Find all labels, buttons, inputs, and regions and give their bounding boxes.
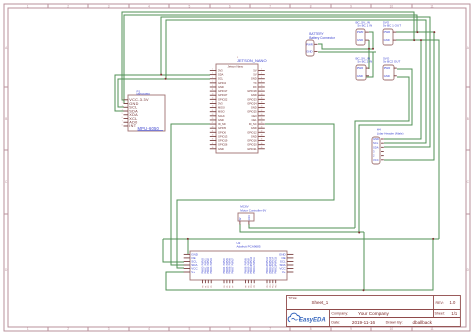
svg-text:38: 38 — [261, 143, 263, 145]
pin 6 XCL — [124, 118, 129, 120]
svg-text:GND: GND — [384, 38, 390, 42]
svg-text:P10: P10 — [251, 285, 253, 288]
svg-text:Lidar Header (Male): Lidar Header (Male) — [377, 131, 404, 135]
svg-text:GPIO22: GPIO22 — [218, 97, 228, 101]
svg-text:V+: V+ — [282, 270, 286, 274]
pin GND — [365, 39, 369, 41]
pin PWR — [393, 31, 397, 33]
pin OE left — [184, 257, 190, 259]
svg-text:5: 5 — [189, 5, 191, 9]
pin 12 GPIO18 — [258, 90, 265, 92]
pin PWR — [365, 31, 369, 33]
svg-text:P0: P0 — [202, 286, 204, 288]
wire drop to PCA GND — [187, 239, 189, 254]
svg-text:Motor Controller 6V: Motor Controller 6V — [240, 209, 266, 213]
pin 5V — [239, 221, 241, 224]
svg-text:GPIO21: GPIO21 — [247, 147, 257, 151]
wire PCA SCL drop from return line — [163, 239, 184, 262]
IC P1 MPU6050 — [128, 95, 165, 131]
pin GND — [248, 221, 250, 224]
svg-text:SDA: SDA — [218, 73, 224, 77]
svg-text:GPIO19: GPIO19 — [218, 139, 228, 143]
svg-text:P12: P12 — [267, 285, 269, 288]
svg-text:GPIO6: GPIO6 — [218, 130, 226, 134]
pin 1 3V3 — [210, 70, 217, 72]
svg-text:31: 31 — [212, 130, 214, 132]
svg-text:ID_SD: ID_SD — [218, 122, 226, 126]
svg-text:GND: GND — [251, 77, 257, 81]
pin 27 ID_SD — [210, 123, 217, 125]
svg-text:1/1: 1/1 — [451, 311, 457, 316]
svg-text:9: 9 — [350, 327, 352, 331]
svg-text:P6: P6 — [230, 286, 232, 288]
svg-text:GPIO27: GPIO27 — [218, 93, 228, 97]
pin 24 CE0 — [258, 115, 265, 117]
svg-text:13: 13 — [212, 93, 214, 95]
IC U2 Adafruit PCA9685 — [190, 251, 287, 280]
svg-text:10: 10 — [261, 85, 263, 87]
junction — [433, 31, 435, 33]
svg-text:Drawn By:: Drawn By: — [386, 321, 403, 325]
svg-text:INT: INT — [129, 124, 136, 128]
pin 8 INT — [124, 125, 129, 127]
junction — [420, 39, 422, 41]
pin 21 MISO — [210, 111, 217, 113]
connector BATTERY Battery Connector — [306, 40, 314, 56]
svg-text:PWR: PWR — [306, 43, 313, 47]
wire battery GND — [318, 51, 376, 53]
svg-text:1.0: 1.0 — [450, 300, 456, 305]
pin PWR — [314, 43, 317, 45]
pin 32 GPIO12 — [258, 131, 265, 133]
pin OE right — [287, 257, 293, 259]
svg-text:GPIO4: GPIO4 — [218, 81, 226, 85]
junction — [363, 289, 365, 291]
svg-text:2: 2 — [67, 5, 69, 9]
svg-text:Battery Connector: Battery Connector — [309, 36, 336, 40]
pin 6 GND — [258, 78, 265, 80]
pin GND right — [287, 253, 293, 255]
svg-text:GPIO26: GPIO26 — [218, 143, 228, 147]
svg-text:7: 7 — [269, 5, 271, 9]
svg-text:Sheet:: Sheet: — [435, 312, 445, 316]
svg-text:PWR: PWR — [357, 30, 364, 34]
svg-text:GND: GND — [251, 134, 257, 138]
svg-text:PWM3: PWM3 — [210, 258, 213, 266]
svg-text:28: 28 — [261, 122, 263, 124]
svg-text:GND: GND — [384, 74, 390, 78]
svg-text:PWM7: PWM7 — [232, 266, 235, 274]
svg-text:GPIO24: GPIO24 — [247, 101, 257, 105]
connector BC1 5v BC 1 IN — [356, 29, 365, 45]
svg-text:5V: 5V — [239, 217, 242, 220]
wire 5VO1 PWR row — [396, 31, 434, 33]
svg-text:3: 3 — [108, 5, 110, 9]
svg-text:GND: GND — [248, 215, 251, 221]
pin VCC left — [184, 268, 190, 270]
svg-text:P11: P11 — [254, 285, 256, 288]
svg-text:D: D — [467, 268, 470, 272]
pin 26 CE1 — [258, 119, 265, 121]
svg-text:B: B — [5, 117, 7, 121]
pin GND left — [184, 253, 190, 255]
svg-text:SCL: SCL — [218, 77, 224, 81]
svg-text:P3: P3 — [211, 286, 213, 288]
svg-text:PWR: PWR — [384, 30, 391, 34]
svg-text:P8: P8 — [245, 286, 247, 288]
pin 35 GPIO19 — [210, 140, 217, 142]
svg-text:16: 16 — [261, 97, 263, 99]
wire MPU SCL to Jetson pin5 SCL — [118, 79, 210, 107]
pin 17 3V3 — [210, 102, 217, 104]
svg-text:Date:: Date: — [331, 321, 340, 325]
pin V+ left — [184, 271, 190, 273]
svg-text:P1: P1 — [205, 286, 207, 288]
svg-text:PWM15: PWM15 — [275, 265, 278, 274]
pin PWR — [366, 67, 369, 69]
pin 3 SDA — [210, 74, 217, 76]
pin 11 GPIO17 — [210, 90, 217, 92]
junction — [413, 39, 415, 41]
pin SDA left — [184, 264, 190, 266]
svg-text:25: 25 — [212, 118, 214, 120]
pin 15 GPIO22 — [210, 98, 217, 100]
pin 2 5V — [258, 70, 265, 72]
svg-text:PWM15: PWM15 — [275, 256, 278, 265]
pin 18 GPIO24 — [258, 102, 265, 104]
pin 22 GPIO25 — [258, 111, 265, 113]
pin GND — [314, 51, 317, 53]
connector 5VO1 5v BC 1 OUT — [383, 29, 393, 45]
wire SDA bus to Lidar SDA — [161, 17, 430, 147]
svg-text:PWR: PWR — [384, 66, 391, 70]
svg-text:PWM3: PWM3 — [210, 266, 213, 274]
svg-text:4: 4 — [148, 327, 150, 331]
svg-text:1: 1 — [27, 5, 29, 9]
svg-text:GND: GND — [251, 126, 257, 130]
pin 4 5V — [258, 74, 265, 76]
svg-text:P14: P14 — [273, 285, 275, 288]
pin SDA right — [287, 264, 293, 266]
svg-text:P4: P4 — [224, 286, 226, 288]
svg-text:30: 30 — [261, 126, 263, 128]
pin SDA — [381, 146, 384, 148]
svg-text:GPIO12: GPIO12 — [247, 130, 257, 134]
pin 8 TX — [258, 82, 265, 84]
svg-text:5v BC 2 IN: 5v BC 2 IN — [358, 59, 373, 63]
svg-text:GPIO5: GPIO5 — [218, 126, 226, 130]
pin 37 GPIO26 — [210, 144, 217, 146]
pin GND — [366, 75, 369, 77]
svg-text:TX: TX — [253, 81, 257, 85]
pin 23 SCLK — [210, 115, 217, 117]
svg-text:C: C — [467, 180, 470, 184]
pin 16 GPIO23 — [258, 98, 265, 100]
wire 5VO2 GND to MC6V — [355, 77, 409, 228]
pin 2 — [381, 155, 384, 157]
svg-text:14: 14 — [261, 93, 263, 95]
svg-text:CE1: CE1 — [252, 118, 258, 122]
pin 20 GND — [258, 107, 265, 109]
svg-text:19: 19 — [212, 106, 214, 108]
frame tick marks top/bottom — [47, 4, 49, 8]
svg-text:GPIO16: GPIO16 — [247, 139, 257, 143]
pin 7 AD0 — [124, 121, 129, 123]
svg-text:MPU-6050: MPU-6050 — [138, 126, 160, 131]
svg-text:GPIO13: GPIO13 — [218, 134, 228, 138]
svg-text:23: 23 — [212, 114, 214, 116]
pin GND — [394, 75, 397, 77]
svg-text:GND: GND — [373, 137, 379, 141]
pin GND — [393, 39, 397, 41]
pin GND — [381, 138, 384, 140]
svg-text:SCLK: SCLK — [218, 114, 225, 118]
pin 1 VCC-3.3V — [124, 99, 129, 101]
svg-text:7: 7 — [269, 327, 271, 331]
pin 5 XDA — [124, 114, 129, 116]
wire BC1 GND / BC2 PWR vertical — [368, 40, 370, 69]
svg-text:40: 40 — [261, 147, 263, 149]
pin 31 GPIO6 — [210, 131, 217, 133]
connector 5VO2 5v BC2 OUT — [383, 65, 394, 80]
svg-text:GND: GND — [251, 106, 257, 110]
connector BC2 5v BC 2 IN — [356, 65, 366, 80]
junction — [160, 74, 162, 76]
pin SCL — [381, 142, 384, 144]
junction — [416, 31, 418, 33]
svg-text:MOSI: MOSI — [218, 106, 225, 110]
wire MPU VCC top bus to 5VO1 GND row — [122, 12, 414, 100]
svg-text:11: 11 — [430, 5, 434, 9]
pin 29 GPIO5 — [210, 127, 217, 129]
svg-text:8: 8 — [310, 327, 312, 331]
svg-text:MISO: MISO — [218, 110, 225, 114]
svg-text:6: 6 — [122, 117, 123, 119]
svg-text:36: 36 — [261, 139, 263, 141]
wire GND return line — [163, 238, 439, 240]
svg-text:12: 12 — [261, 89, 263, 91]
svg-text:P5: P5 — [227, 286, 229, 288]
wire PCA V+ bottom loop — [166, 239, 433, 290]
svg-text:5: 5 — [122, 113, 123, 115]
pin 36 GPIO16 — [258, 140, 265, 142]
wire battery PWR — [318, 44, 373, 49]
pin SCL right — [287, 261, 293, 263]
svg-text:5: 5 — [189, 327, 191, 331]
svg-text:5v BC2 OUT: 5v BC2 OUT — [383, 59, 400, 63]
pin 33 GPIO13 — [210, 135, 217, 137]
svg-text:GND: GND — [357, 74, 363, 78]
pin 34 GND — [258, 135, 265, 137]
connector MC6V Motor Controller 6V — [238, 213, 254, 221]
wire MC6V right pin — [249, 224, 355, 228]
svg-text:6: 6 — [229, 327, 231, 331]
svg-text:PWM11: PWM11 — [253, 265, 256, 274]
svg-text:33: 33 — [212, 135, 214, 137]
pin SCL left — [184, 261, 190, 263]
svg-text:dballback: dballback — [413, 320, 433, 325]
svg-text:8: 8 — [310, 5, 312, 9]
wire 5VO1 GND row to GND return — [396, 40, 439, 239]
junction — [187, 238, 189, 240]
junction — [358, 232, 360, 234]
svg-text:B: B — [467, 117, 469, 121]
wire 5VO2 PWR to MC6V — [359, 69, 412, 232]
svg-text:3V3: 3V3 — [218, 101, 223, 105]
svg-text:5V: 5V — [253, 73, 256, 77]
svg-text:TITLE:: TITLE: — [288, 296, 297, 300]
svg-text:Jetson Nano: Jetson Nano — [228, 64, 244, 68]
svg-text:V+: V+ — [191, 270, 195, 274]
title block — [287, 296, 461, 327]
svg-text:21: 21 — [212, 110, 214, 112]
wire Lidar GND up — [384, 40, 421, 139]
svg-text:37: 37 — [212, 143, 214, 145]
svg-text:PWM7: PWM7 — [232, 258, 235, 266]
svg-text:P9: P9 — [248, 286, 250, 288]
svg-text:29: 29 — [212, 126, 214, 128]
junction — [165, 78, 167, 80]
junction — [372, 48, 374, 50]
svg-text:22: 22 — [261, 110, 263, 112]
pin 2 GND — [124, 103, 129, 105]
frame row ticks + letters — [4, 86, 8, 88]
svg-text:1: 1 — [27, 327, 29, 331]
svg-text:2: 2 — [122, 102, 123, 104]
svg-text:GPIO18: GPIO18 — [247, 89, 257, 93]
svg-text:Your Company: Your Company — [358, 311, 389, 316]
svg-text:8: 8 — [122, 124, 123, 126]
pin 3 — [381, 150, 384, 152]
svg-text:GND: GND — [306, 50, 312, 54]
svg-text:2: 2 — [67, 327, 69, 331]
junction — [368, 48, 370, 50]
svg-text:P15: P15 — [276, 285, 278, 288]
EasyEDA logo — [288, 313, 326, 323]
svg-text:15: 15 — [212, 97, 214, 99]
pin VCC right — [287, 268, 293, 270]
svg-text:24: 24 — [261, 114, 263, 116]
pin 9 GND — [210, 86, 217, 88]
svg-text:7: 7 — [122, 121, 123, 123]
svg-text:Adafruit PCA9685: Adafruit PCA9685 — [237, 245, 261, 249]
wire Jetson 5V to PCA VCC — [177, 124, 334, 268]
svg-text:9: 9 — [350, 5, 352, 9]
svg-text:GND: GND — [218, 147, 224, 151]
svg-text:GND: GND — [218, 85, 224, 89]
svg-text:P2: P2 — [208, 286, 210, 288]
svg-text:VCC: VCC — [373, 158, 379, 162]
svg-text:39: 39 — [212, 147, 214, 149]
wire BC1 PWR down — [369, 32, 373, 49]
svg-text:10: 10 — [390, 327, 394, 331]
wire BC2 GND vertical — [366, 52, 373, 77]
svg-text:3V3: 3V3 — [218, 69, 223, 73]
svg-text:JETSON_NANO: JETSON_NANO — [237, 58, 267, 63]
svg-text:REV:: REV: — [436, 301, 444, 305]
svg-text:2: 2 — [373, 154, 375, 158]
svg-text:GND: GND — [251, 93, 257, 97]
junction — [432, 238, 434, 240]
svg-text:EasyEDA: EasyEDA — [299, 318, 326, 324]
connector H4 Lidar Header (Male) — [372, 137, 380, 164]
svg-text:GPIO17: GPIO17 — [218, 89, 228, 93]
svg-text:GPIO23: GPIO23 — [247, 97, 257, 101]
svg-text:2019-11-16: 2019-11-16 — [352, 320, 376, 325]
pin VCC — [381, 159, 384, 161]
pin V+ right — [287, 271, 293, 273]
IC U1 JETSON_NANO — [216, 64, 258, 153]
svg-text:CE0: CE0 — [252, 114, 258, 118]
wire V+ riser — [363, 232, 365, 290]
svg-text:4: 4 — [148, 5, 150, 9]
svg-text:Sheet_1: Sheet_1 — [312, 300, 329, 305]
svg-text:GND: GND — [218, 118, 224, 122]
pin 3 SCL — [124, 106, 129, 108]
svg-text:27: 27 — [212, 122, 214, 124]
svg-text:ID_SC: ID_SC — [249, 122, 257, 126]
svg-text:PWR: PWR — [357, 66, 364, 70]
PCA9685 servo channel pins — [202, 280, 204, 283]
svg-text:SDA: SDA — [373, 145, 379, 149]
svg-text:P13: P13 — [270, 285, 272, 288]
pin 4 SDA — [124, 110, 129, 112]
pin 5 SCL — [210, 78, 217, 80]
svg-text:GPIO25: GPIO25 — [247, 110, 257, 114]
svg-text:GPIO20: GPIO20 — [247, 143, 257, 147]
svg-text:P7: P7 — [233, 286, 235, 288]
svg-text:MPU6050: MPU6050 — [137, 92, 151, 96]
svg-text:32: 32 — [261, 130, 263, 132]
svg-text:3: 3 — [108, 327, 110, 331]
wire MC6V left pin rail — [240, 224, 364, 232]
pin 28 ID_SC — [258, 123, 265, 125]
pin 25 GND — [210, 119, 217, 121]
wire Lidar VCC up — [384, 32, 434, 160]
svg-text:17: 17 — [212, 102, 214, 104]
svg-text:RX: RX — [253, 85, 257, 89]
pin 13 GPIO27 — [210, 94, 217, 96]
svg-text:35: 35 — [212, 139, 214, 141]
svg-text:GND: GND — [357, 38, 363, 42]
wire MPU SDA to Jetson pin3 SDA — [115, 75, 210, 111]
svg-text:3: 3 — [373, 150, 375, 154]
svg-text:18: 18 — [261, 102, 263, 104]
pin 39 GND — [210, 148, 217, 150]
svg-text:5v BC 1 OUT: 5v BC 1 OUT — [383, 23, 401, 27]
svg-text:34: 34 — [261, 135, 263, 137]
pin 14 GND — [258, 94, 265, 96]
svg-text:SCL: SCL — [373, 141, 379, 145]
svg-text:5V: 5V — [253, 69, 256, 73]
svg-text:5v BC 1 IN: 5v BC 1 IN — [358, 23, 373, 27]
svg-text:10: 10 — [390, 5, 394, 9]
svg-text:11: 11 — [212, 89, 214, 91]
svg-text:26: 26 — [261, 118, 263, 120]
pin 19 MOSI — [210, 107, 217, 109]
wire SCL bus to Lidar SCL — [166, 20, 426, 143]
svg-text:6: 6 — [229, 5, 231, 9]
wire MPU GND top bus to 5VO1 PWR row — [124, 15, 417, 104]
svg-text:20: 20 — [261, 106, 263, 108]
wire Jetson I2C to PCA SDA — [171, 124, 210, 265]
svg-text:Company:: Company: — [331, 312, 348, 316]
pin 40 GPIO21 — [258, 148, 265, 150]
pin 30 GND — [258, 127, 265, 129]
svg-text:11: 11 — [430, 327, 434, 331]
pin 10 RX — [258, 86, 265, 88]
pin 38 GPIO20 — [258, 144, 265, 146]
